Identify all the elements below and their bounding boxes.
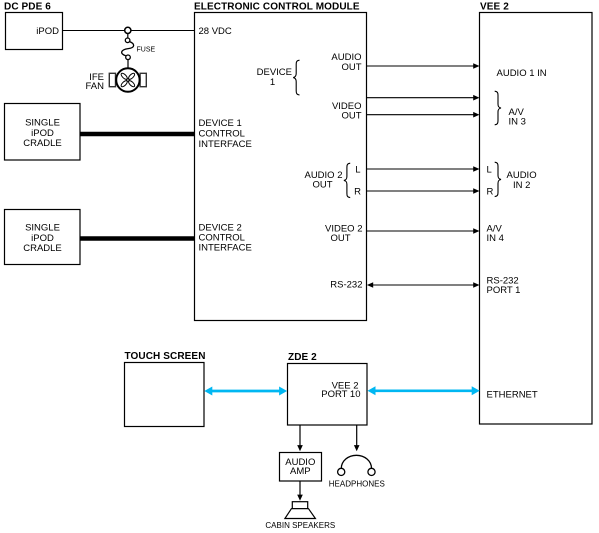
- svg-text:SINGLE: SINGLE: [25, 222, 60, 233]
- svg-text:DC PDE 6: DC PDE 6: [4, 2, 51, 13]
- svg-text:1: 1: [270, 77, 275, 88]
- box SINGLE iPOD CRADLE 2: [5, 210, 81, 265]
- svg-text:TOUCH SCREEN: TOUCH SCREEN: [125, 351, 206, 362]
- wire arrow AUDIO AMP to CABIN SPEAKERS: [297, 481, 303, 501]
- svg-text:AUDIO 1 IN: AUDIO 1 IN: [497, 68, 547, 79]
- svg-text:OUT: OUT: [341, 110, 361, 121]
- box TOUCH SCREEN: [125, 363, 205, 427]
- brace right A/V IN 3: [495, 91, 501, 125]
- svg-text:IN 3: IN 3: [509, 116, 526, 127]
- box ZDE 2: [288, 364, 368, 426]
- svg-text:OUT: OUT: [330, 233, 350, 244]
- wire arrow VIDEO OUT lower to A/V IN 3: [367, 112, 480, 118]
- svg-text:PORT 10: PORT 10: [321, 389, 360, 400]
- svg-text:CRADLE: CRADLE: [23, 138, 62, 149]
- svg-text:OUT: OUT: [312, 179, 332, 190]
- svg-text:ZDE 2: ZDE 2: [288, 352, 317, 363]
- svg-text:L: L: [355, 164, 360, 175]
- box VEE 2: [480, 13, 593, 425]
- svg-text:OUT: OUT: [341, 62, 361, 73]
- headphones icon: [338, 455, 376, 475]
- box iPOD: [6, 13, 63, 50]
- svg-text:DEVICE 1: DEVICE 1: [199, 118, 242, 129]
- thick wire cradle2 to DEVICE 2 CONTROL INTERFACE: [80, 236, 194, 241]
- svg-text:HEADPHONES: HEADPHONES: [329, 480, 385, 489]
- wire arrow VIDEO 2 OUT to A/V IN 4: [367, 228, 480, 234]
- svg-text:iPOD: iPOD: [31, 128, 54, 139]
- svg-text:ELECTRONIC CONTROL MODULE: ELECTRONIC CONTROL MODULE: [194, 2, 360, 13]
- brace right AUDIO IN 2: [495, 162, 501, 196]
- svg-text:L: L: [487, 164, 492, 175]
- svg-text:R: R: [354, 186, 361, 197]
- wire arrow audio R to VEE2: [367, 188, 480, 194]
- svg-text:28 VDC: 28 VDC: [199, 26, 232, 37]
- svg-text:VEE 2: VEE 2: [480, 2, 509, 13]
- svg-text:CONTROL: CONTROL: [199, 128, 245, 139]
- svg-text:FUSE: FUSE: [137, 46, 156, 53]
- svg-text:IN 2: IN 2: [513, 180, 530, 191]
- brace left AUDIO 2 OUT: [344, 163, 350, 197]
- box ECM electronic control module: [195, 13, 367, 321]
- svg-text:FAN: FAN: [86, 81, 105, 92]
- svg-text:ETHERNET: ETHERNET: [487, 389, 538, 400]
- cyan double arrow TOUCH SCREEN to ZDE 2: [204, 387, 287, 396]
- fuse terminal bottom circle: [126, 55, 131, 60]
- wire arrow AUDIO OUT to AUDIO 1 IN: [367, 63, 480, 69]
- wire arrow ZDE 2 to AUDIO AMP: [297, 426, 303, 452]
- speaker icon CABIN SPEAKERS: [285, 502, 316, 519]
- svg-text:INTERFACE: INTERFACE: [199, 243, 252, 254]
- wire double arrow RS-232: [367, 282, 480, 288]
- svg-text:SINGLE: SINGLE: [25, 117, 60, 128]
- wire arrow audio L to VEE2: [367, 166, 480, 172]
- svg-text:INTERFACE: INTERFACE: [199, 139, 252, 150]
- wire iPOD to ECM 28 VDC: [63, 30, 195, 32]
- svg-text:RS-232: RS-232: [330, 279, 362, 290]
- svg-text:CABIN SPEAKERS: CABIN SPEAKERS: [265, 521, 335, 530]
- wire junction to fuse: [127, 34, 129, 39]
- svg-text:iPOD: iPOD: [36, 26, 59, 37]
- svg-text:AMP: AMP: [290, 466, 311, 477]
- thick wire cradle1 to DEVICE 1 CONTROL INTERFACE: [80, 132, 194, 137]
- junction connector circle on 28 VDC wire: [125, 27, 131, 33]
- fan IFE FAN: [109, 68, 146, 91]
- wire arrow VIDEO OUT upper to A/V IN 3: [367, 95, 480, 101]
- svg-text:R: R: [487, 186, 494, 197]
- svg-text:CRADLE: CRADLE: [23, 243, 62, 254]
- fuse element S-curve: [122, 42, 134, 56]
- wire fuse to fan: [127, 60, 129, 68]
- fuse terminal top circle: [125, 38, 130, 43]
- box AUDIO AMP: [280, 453, 322, 482]
- brace left DEVICE 1: [293, 60, 299, 95]
- svg-text:IN 4: IN 4: [487, 233, 504, 244]
- box SINGLE iPOD CRADLE 1: [5, 104, 81, 161]
- cyan double arrow ZDE 2 to VEE 2 ETHERNET: [368, 386, 480, 395]
- svg-text:iPOD: iPOD: [31, 233, 54, 244]
- wire arrow ZDE 2 to HEADPHONES: [354, 426, 360, 452]
- svg-text:PORT 1: PORT 1: [487, 285, 521, 296]
